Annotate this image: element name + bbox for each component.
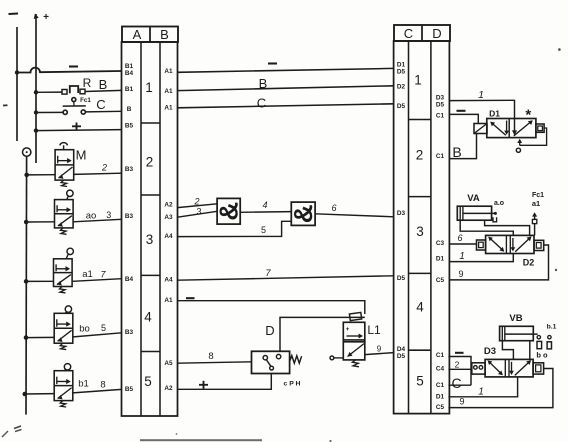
label 2 (C4)	[455, 360, 460, 370]
strip CD right terminal labels	[436, 95, 445, 412]
svg-text:4: 4	[416, 300, 424, 315]
valve L1 (3/2 pilot operated)	[330, 322, 365, 367]
svg-text:D1: D1	[397, 62, 406, 69]
wire 9 C5 to D2 right pilot	[449, 245, 548, 280]
wire 1 D1 row to valve D3	[448, 377, 517, 397]
svg-text:4: 4	[144, 310, 152, 325]
label C (long wire)	[257, 96, 266, 111]
svg-text:b.1: b.1	[547, 324, 557, 331]
node: R switch junction	[34, 90, 38, 94]
negative supply rail	[16, 27, 18, 141]
label 1 (wire)	[478, 89, 484, 101]
svg-text:+: +	[43, 12, 49, 23]
svg-text:A1: A1	[164, 88, 173, 95]
label minus (A1 row)	[186, 297, 195, 299]
svg-text:A3: A3	[164, 214, 173, 221]
label plus (A2 row)	[199, 381, 208, 389]
counter coil W zigzag	[290, 356, 302, 364]
label L1	[367, 323, 381, 337]
svg-text:1: 1	[478, 89, 484, 101]
label 6	[331, 203, 336, 213]
wire: valve bo output to B3 (5)	[73, 333, 121, 337]
svg-text:C5: C5	[436, 277, 445, 284]
pilot line VB front to D3	[529, 341, 531, 360]
pilot line VA front to D2	[485, 220, 530, 235]
svg-text:C: C	[451, 375, 461, 391]
svg-text:5: 5	[261, 225, 266, 235]
terminal strip CD outline	[394, 41, 450, 414]
label B (R output)	[99, 77, 108, 92]
svg-text:C1: C1	[436, 153, 445, 160]
label 5	[101, 323, 106, 333]
svg-text:9: 9	[377, 345, 382, 354]
cylinder VA	[457, 206, 497, 220]
svg-text:2: 2	[416, 148, 424, 163]
wire minus C1 to D3	[448, 357, 471, 386]
valve b1 (roller pilot 3/2)	[54, 364, 73, 407]
label b1 (VB)	[547, 324, 557, 331]
label bo	[79, 324, 90, 335]
wire: bus to valve b1	[25, 393, 54, 395]
strip AB section numbers	[144, 80, 153, 389]
svg-text:8: 8	[100, 380, 105, 391]
svg-text:D5: D5	[397, 275, 406, 282]
svg-text:bo: bo	[79, 324, 90, 335]
svg-text:R: R	[83, 76, 92, 90]
svg-text:5: 5	[101, 323, 106, 333]
label 7	[100, 270, 106, 280]
svg-text:B: B	[452, 144, 461, 160]
svg-text:D3: D3	[397, 210, 406, 217]
svg-text:1: 1	[145, 80, 153, 95]
wire: bus to valve bo	[26, 336, 54, 338]
wire minus C1 to D1 solenoid	[449, 114, 478, 123]
wire: plus bus to B5	[36, 130, 122, 131]
svg-text:7: 7	[265, 268, 271, 279]
svg-text:A5: A5	[164, 360, 173, 367]
svg-text:C1: C1	[436, 352, 445, 359]
svg-text:D1: D1	[489, 109, 500, 119]
svg-text:B1: B1	[125, 86, 134, 93]
solenoid of valve D1	[474, 124, 487, 134]
svg-text:C: C	[257, 96, 266, 111]
svg-text:B1: B1	[125, 63, 134, 70]
label B (long wire)	[259, 76, 268, 91]
svg-text:a.o: a.o	[494, 200, 504, 207]
sensor bo	[547, 336, 551, 349]
svg-text:C1: C1	[436, 382, 445, 389]
svg-text:1: 1	[414, 73, 422, 88]
svg-text:a1: a1	[82, 269, 93, 280]
valve a1 (roller pilot 3/2)	[54, 248, 74, 293]
svg-text:6: 6	[457, 233, 462, 243]
AND gate box 1	[214, 198, 244, 224]
cylinder VB	[500, 326, 538, 340]
svg-text:A4: A4	[164, 233, 173, 240]
label Fc1 (right)	[532, 192, 544, 199]
node: valve a1 tap	[24, 279, 29, 284]
pushbutton R	[36, 86, 122, 94]
pilot line VB rear to D3	[502, 341, 513, 360]
label M	[76, 148, 87, 163]
svg-text:D2: D2	[523, 258, 535, 268]
strip CD left terminal labels	[397, 62, 406, 361]
label VB	[509, 313, 522, 324]
valve D3 left pilot	[472, 363, 485, 374]
limit switch Fc1	[36, 98, 122, 115]
svg-text:D5: D5	[397, 103, 406, 110]
svg-text:A2: A2	[164, 385, 173, 392]
svg-text:D4: D4	[397, 346, 406, 353]
wire 1 D1 row to valve D2	[449, 254, 513, 262]
valve D2 right pilot	[534, 240, 544, 250]
valve L1 pilot head	[349, 312, 361, 320]
node: plus bus junction	[34, 128, 38, 132]
label 1 (D1 row)	[459, 251, 465, 262]
svg-text:&: &	[214, 202, 244, 221]
svg-text:1: 1	[478, 387, 484, 398]
node: valve M tap	[24, 173, 29, 178]
limit switch symbol Fc1/a1	[532, 212, 537, 235]
wire plus A2 to counter	[178, 374, 272, 390]
positive supply rail	[35, 20, 37, 163]
AND gate box 2	[288, 202, 318, 225]
svg-text:A4: A4	[164, 277, 173, 284]
svg-text:A1: A1	[164, 68, 173, 75]
wire minus A1 to D1/D5	[178, 68, 394, 72]
svg-text:3: 3	[106, 210, 111, 220]
svg-text:*: *	[525, 107, 531, 124]
svg-text:D5: D5	[397, 69, 406, 76]
svg-text:3: 3	[416, 224, 424, 239]
svg-text:B4: B4	[125, 276, 134, 283]
svg-text:c P H: c P H	[284, 381, 301, 388]
pilot line VA rear to D2	[460, 220, 513, 235]
wire: minus bus to B1/B4 (hop over + rail)	[17, 68, 122, 73]
label plus bus	[72, 123, 81, 131]
terminal strip AB header	[122, 27, 178, 43]
svg-text:D5: D5	[397, 353, 406, 360]
svg-text:B3: B3	[125, 166, 134, 173]
valve D3 right pilot	[533, 363, 544, 374]
wire 6 AND2 to D3	[315, 214, 394, 217]
wire: valve ao output to B3 (3)	[73, 219, 121, 222]
label minus bus	[69, 65, 78, 67]
valve D3 body	[485, 359, 533, 377]
minus supply mark	[9, 12, 19, 15]
label 8	[208, 351, 213, 362]
svg-text:B3: B3	[125, 329, 134, 336]
wire 7 A4 to D5	[178, 276, 394, 280]
svg-text:2: 2	[101, 163, 107, 173]
label D3	[484, 346, 496, 357]
strip AB right terminal labels	[164, 68, 173, 392]
svg-text:b o: b o	[536, 351, 548, 360]
wire C4 to D3 pilot	[448, 368, 471, 370]
svg-text:a1: a1	[532, 199, 540, 208]
svg-text:Fc1: Fc1	[80, 97, 91, 104]
label 5	[261, 225, 266, 235]
plus supply label	[43, 12, 49, 23]
label 2	[101, 163, 107, 173]
wire: valve b1 output to B5 (8)	[73, 389, 122, 393]
svg-text:B: B	[99, 77, 108, 92]
svg-text:D: D	[432, 26, 441, 41]
svg-text:B5: B5	[125, 386, 134, 393]
label a1	[82, 269, 93, 280]
label b1	[78, 379, 89, 390]
svg-text:D3: D3	[436, 95, 445, 102]
svg-text:B4: B4	[125, 70, 134, 77]
svg-text:D1: D1	[436, 394, 445, 401]
svg-text:L1: L1	[367, 323, 381, 337]
node: minus bus junction	[15, 70, 19, 74]
valve M (manual pushbutton 3/2)	[55, 143, 74, 187]
svg-text:M: M	[76, 148, 87, 163]
svg-text:2: 2	[193, 197, 199, 207]
svg-text:VA: VA	[467, 193, 480, 204]
label 3	[106, 210, 111, 220]
wire: valve M output to B3 (2)	[74, 173, 122, 174]
label VA	[467, 193, 480, 204]
svg-text:9: 9	[458, 269, 463, 279]
label bo (VB)	[536, 351, 548, 360]
wire 8 A5 to counter	[178, 362, 252, 363]
wire C A1 to D5	[178, 104, 394, 108]
wire: bus to valve ao	[26, 221, 54, 223]
pneumatic supply bus vertical	[25, 156, 28, 414]
svg-text:+: +	[346, 326, 350, 333]
valve bo (roller pilot 3/2)	[54, 306, 73, 350]
label a1 (right)	[532, 199, 540, 208]
label 7	[265, 268, 271, 279]
label minus (long wire)	[268, 62, 277, 64]
label ao	[86, 211, 97, 222]
svg-text:D: D	[265, 323, 274, 338]
svg-text:B: B	[259, 76, 268, 91]
label minus (C1)	[457, 110, 466, 112]
label CPH	[284, 381, 301, 388]
svg-text:C1: C1	[436, 113, 445, 120]
label 9 (C5 bottom)	[459, 397, 464, 407]
wire 6 C3 to D2	[449, 243, 476, 245]
strip AB section dividers	[141, 123, 160, 352]
svg-text:1: 1	[459, 251, 465, 262]
svg-text:3: 3	[196, 207, 201, 217]
node: valve ao tap	[24, 220, 29, 225]
wire C1 bottom row	[448, 384, 471, 386]
valve D2 body	[486, 235, 534, 253]
label R	[83, 76, 92, 90]
sensor b1	[537, 336, 542, 349]
svg-text:ao: ao	[86, 211, 97, 222]
wire B A1 to D2	[178, 86, 394, 91]
svg-text:D2: D2	[397, 84, 406, 91]
label 8	[100, 380, 105, 391]
svg-text:D3: D3	[484, 346, 496, 357]
label 3	[196, 207, 201, 217]
svg-text:3: 3	[146, 232, 154, 247]
pressure source circle	[23, 148, 31, 156]
svg-text:A1: A1	[164, 297, 173, 304]
terminal strip AB outline	[122, 42, 178, 416]
wire: bus to valve M	[27, 174, 55, 176]
node: valve b1 tap	[23, 392, 28, 397]
svg-text:B3: B3	[125, 213, 134, 220]
svg-text:C3: C3	[436, 240, 445, 247]
wire D1 solenoid to C1	[449, 134, 476, 159]
wire: bus to valve a1	[26, 280, 53, 282]
wire 9 C5 to D3 right pilot	[448, 369, 553, 408]
strip CD section dividers	[409, 120, 431, 351]
valve D1 pilot feedback wire	[517, 128, 546, 145]
label a.o	[494, 200, 504, 207]
cam flag a.o	[493, 217, 497, 222]
label 6 (C3)	[457, 233, 462, 243]
node: Fc1 junction	[34, 110, 38, 114]
wire minus A1 to L1 pilot	[178, 301, 365, 314]
svg-text:8: 8	[208, 351, 213, 362]
wire L1 to D4/D5	[365, 353, 394, 355]
svg-text:B: B	[127, 106, 132, 113]
plus supply arrow	[34, 14, 39, 21]
label 1 (D1 bottom)	[478, 387, 484, 398]
wire 2 A2 to AND1	[178, 204, 218, 208]
label C (Fc1 output)	[96, 97, 105, 112]
wire 1 D3/D5 to valve D1	[449, 100, 517, 135]
label B (C1 row)	[452, 144, 461, 160]
svg-text:&: &	[288, 204, 318, 223]
label C (C1 row)	[451, 375, 461, 391]
terminal strip CD header	[394, 25, 450, 41]
valve D2 left pilot	[477, 240, 486, 250]
svg-text:B5: B5	[125, 123, 134, 130]
svg-text:2: 2	[455, 360, 460, 370]
svg-text:A: A	[133, 27, 142, 42]
svg-text:5: 5	[144, 374, 152, 389]
label 9 (L1 wire)	[377, 345, 382, 354]
svg-text:2: 2	[146, 155, 154, 170]
svg-text:b1: b1	[78, 379, 89, 390]
label D	[265, 323, 274, 338]
label D2	[523, 258, 535, 268]
label star above D1	[525, 107, 531, 124]
strip CD section numbers	[414, 73, 424, 389]
svg-text:C: C	[404, 26, 413, 41]
label 9 (C5)	[458, 269, 463, 279]
wire D counter to L1 pilot	[280, 317, 365, 351]
svg-text:D1: D1	[436, 256, 445, 263]
label Fc1	[80, 97, 91, 104]
svg-text:6: 6	[331, 203, 336, 213]
wire 5 A4 to AND2	[178, 221, 292, 236]
svg-text:VB: VB	[509, 313, 522, 324]
wire 3 A3 to AND1	[178, 211, 218, 217]
wire 4 AND1 to AND2	[240, 211, 291, 214]
svg-text:B: B	[160, 27, 169, 42]
svg-text:C: C	[96, 97, 105, 112]
svg-text:9: 9	[459, 397, 464, 407]
svg-text:C4: C4	[436, 366, 445, 373]
svg-text:7: 7	[100, 270, 106, 280]
valve ao (roller pilot 3/2)	[55, 190, 74, 234]
wire: valve a1 output to B4 (7)	[73, 279, 122, 282]
label 4	[262, 200, 267, 210]
strip AB left terminal labels	[125, 63, 134, 393]
svg-text:A1: A1	[164, 105, 173, 112]
valve D1 exhaust port	[516, 148, 520, 152]
label 2	[193, 197, 199, 207]
valve D1 body	[487, 119, 536, 138]
valve D1 return box	[536, 124, 544, 132]
svg-text:5: 5	[416, 374, 424, 389]
counter relay CPH box	[252, 351, 290, 373]
svg-text:A2: A2	[164, 202, 173, 209]
svg-text:D5: D5	[436, 102, 445, 109]
label D1	[489, 109, 500, 119]
node: valve bo tap	[24, 335, 29, 340]
svg-text:4: 4	[262, 200, 267, 210]
label minus (C1 bottom)	[455, 352, 464, 354]
svg-text:C5: C5	[436, 404, 445, 411]
